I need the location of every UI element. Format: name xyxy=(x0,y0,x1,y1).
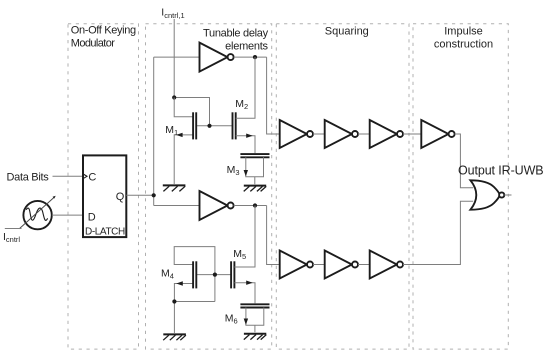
transistor M5 plates xyxy=(231,261,234,288)
current source I cntrl (circle with sine) xyxy=(23,201,51,229)
wire: M1 drain up to Icntrl,1 node xyxy=(174,98,193,117)
inverter U6 (squaring top 3) xyxy=(370,120,403,148)
svg-text:M3: M3 xyxy=(227,164,240,177)
transistor M1 plates xyxy=(193,112,196,139)
inverter U3 (tunable delay, bottom) xyxy=(200,191,234,220)
svg-text:Modulator: Modulator xyxy=(71,37,115,49)
junction: M4 source / ground node xyxy=(172,299,176,303)
arrow: M2 source arrow xyxy=(246,134,253,138)
svg-text:construction: construction xyxy=(434,38,493,50)
MOS capacitor M3 xyxy=(240,154,269,184)
svg-text:D-LATCH: D-LATCH xyxy=(85,227,125,238)
junction: U2 output node to M2 drain xyxy=(253,55,257,59)
wire: M5 drain to inverter U3 output xyxy=(234,206,255,268)
wire: U5 to U6 xyxy=(358,133,370,135)
inverter U4 (squaring top 1) xyxy=(280,120,313,148)
wire: inverter U2 input xyxy=(154,56,200,58)
inverter U5 (squaring top 2) xyxy=(325,120,358,148)
dashed box: Tunable delay elements section xyxy=(146,24,272,349)
wire: current source to latch D input xyxy=(52,214,83,216)
wire: Data Bits to latch C input xyxy=(53,175,84,177)
svg-text:M5: M5 xyxy=(233,248,246,261)
svg-text:Icntrl,1: Icntrl,1 xyxy=(161,7,184,21)
wire: vertical from inverter U2 input down past Q node to inverter U3 input xyxy=(153,57,155,205)
wire: top rail Icntrl,1 to mirror gates xyxy=(174,98,209,126)
wire: source node to gate-loop bottom wire xyxy=(174,301,215,303)
wire: inverter U2 output xyxy=(234,56,267,58)
svg-text:M6: M6 xyxy=(225,312,238,325)
junction: U3 output node to M5 drain xyxy=(253,203,257,207)
svg-text:M2: M2 xyxy=(235,98,248,111)
wire: NOR output xyxy=(504,194,511,196)
arrow: M4 source arrow xyxy=(176,281,183,285)
dashed box: Impulse construction section xyxy=(413,24,508,349)
svg-text:On-Off Keying: On-Off Keying xyxy=(71,24,136,36)
label: Tunable delay elements xyxy=(203,27,269,52)
label: On-Off Keying Modulator xyxy=(71,24,136,49)
wire: U2 output over to top squaring row xyxy=(267,57,280,134)
dashed box: On-Off Keying Modulator section xyxy=(68,24,139,349)
wire: M2 source to M3 gate xyxy=(236,136,255,153)
svg-text:Data Bits: Data Bits xyxy=(7,172,50,184)
svg-text:Impulse: Impulse xyxy=(444,25,483,37)
wire: Q output to node xyxy=(126,194,153,196)
wire: Icntrl label leader xyxy=(5,228,22,230)
junction: Q node xyxy=(152,193,156,197)
MOS capacitor M6 xyxy=(240,304,269,332)
inverter U9 (squaring bottom 2) xyxy=(325,251,358,279)
wire: M1 source to ground xyxy=(174,135,193,184)
inverter U7 (impulse construction) xyxy=(421,120,454,148)
arrow: variable-control diagonal through current source xyxy=(19,196,55,229)
svg-text:Squaring: Squaring xyxy=(325,25,369,37)
wire: U4 to U5 xyxy=(313,133,325,135)
svg-text:D: D xyxy=(88,211,96,223)
inverter U10 (squaring bottom 3) xyxy=(370,251,403,279)
wire: M4 source down to ground rail xyxy=(174,284,193,334)
wire: M4 drain loop to gate node xyxy=(174,247,215,302)
dashed box: Squaring section xyxy=(276,24,409,349)
ground under M4 xyxy=(163,334,186,340)
wire: U7 output to NOR top input xyxy=(455,134,474,188)
pin: clock triangle on C input xyxy=(83,174,87,179)
inverter U2 (tunable delay, top) xyxy=(200,43,234,72)
wire: M1-M2 gate wire xyxy=(196,125,232,127)
wire: inverter U3 output xyxy=(234,205,267,207)
wire: inverter U3 input xyxy=(154,205,200,207)
svg-text:M4: M4 xyxy=(161,268,174,281)
svg-text:elements: elements xyxy=(225,41,268,53)
svg-text:Tunable delay: Tunable delay xyxy=(203,27,269,39)
ground under M3 xyxy=(244,186,267,192)
svg-text:M1: M1 xyxy=(165,124,178,137)
transistor M4 plates xyxy=(193,261,196,288)
junction: gate node of current mirror M1/M2 xyxy=(207,124,211,128)
svg-text:Q: Q xyxy=(116,191,125,203)
wire: M2 drain to inverter U2 output xyxy=(236,57,255,118)
wire: U8 to U9 xyxy=(313,264,325,266)
wire: U10 output to NOR bottom input xyxy=(403,201,473,264)
wire: M5 source to M6 gate xyxy=(234,283,255,304)
junction: Icntrl,1 / M1 drain node xyxy=(172,95,176,99)
junction: gate node of mirror M4/M5 xyxy=(213,273,217,277)
wire: U6 to U7 xyxy=(403,133,421,135)
wire: U9 to U10 xyxy=(358,264,370,266)
svg-text:Icntrl: Icntrl xyxy=(3,231,20,244)
inverter U8 (squaring bottom 1) xyxy=(280,251,313,279)
label: Impulse construction xyxy=(434,25,493,50)
wire: M4-M5 gate wire xyxy=(196,274,231,276)
arrow: M5 source arrow xyxy=(246,281,253,285)
ground under M1 xyxy=(163,185,186,191)
NOR gate U11 xyxy=(470,180,504,209)
arrow: M1 source arrow xyxy=(176,133,183,137)
svg-text:C: C xyxy=(88,172,96,184)
transistor M2 plates xyxy=(233,112,236,139)
D-latch U1 box xyxy=(83,155,126,237)
svg-text:Output IR-UWB: Output IR-UWB xyxy=(458,163,544,177)
wire: U3 output over to bottom squaring row xyxy=(267,206,280,265)
wire: Icntrl,1 vertical feed xyxy=(173,19,175,98)
ground under M6 xyxy=(244,334,267,340)
